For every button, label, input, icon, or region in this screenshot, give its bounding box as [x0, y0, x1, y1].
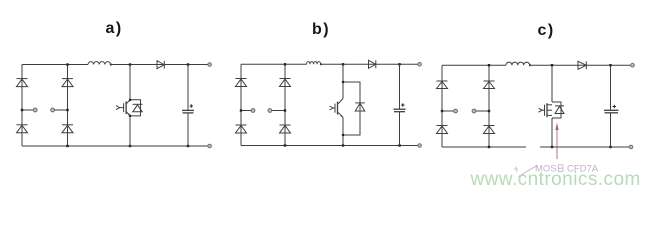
bridge diode A-D2 — [17, 125, 28, 133]
bridge diode A-D1 — [17, 79, 28, 87]
node AC1 a — [21, 108, 37, 112]
bridge diode B-D3 — [280, 79, 291, 87]
svg-text:a): a) — [106, 20, 123, 37]
wire bottom rail C (with gap) — [442, 146, 629, 148]
wire right bridge leg B — [284, 64, 286, 145]
svg-text:c): c) — [538, 22, 555, 39]
output terminal C- — [629, 145, 633, 149]
wire top rail C — [442, 64, 631, 66]
annotation stroke diagonal — [519, 166, 538, 177]
IGBT Q (a) — [116, 100, 130, 116]
junction dots bottom rail B — [284, 144, 401, 146]
node AC1 c — [441, 109, 458, 113]
bridge diode C-D2 — [437, 126, 448, 134]
wire top rail A — [22, 64, 208, 66]
output terminal A+ — [208, 63, 212, 67]
node AC1 b — [240, 109, 255, 113]
bridge diode C-D4 — [484, 126, 495, 134]
wire top rail B — [241, 63, 418, 65]
antiparallel diode A — [133, 104, 143, 112]
svg-text:b): b) — [312, 21, 330, 38]
annotation arrow (red) to MOSFET — [555, 123, 558, 159]
junction dots top rail B — [284, 63, 401, 65]
IGBT Q (b) — [330, 99, 344, 118]
antiparallel diode loop B — [343, 82, 360, 135]
bridge diode C-D1 — [437, 81, 448, 89]
wire bottom rail B — [241, 145, 418, 147]
capacitor C (b) — [394, 64, 406, 145]
wire left bridge leg C — [441, 65, 443, 147]
antiparallel diode loop A — [130, 100, 141, 116]
capacitor C (c) — [604, 65, 619, 147]
junction dots bottom rail C — [488, 146, 612, 148]
inductor L (c) — [506, 62, 531, 66]
antiparallel diode B — [355, 103, 365, 111]
output terminal C+ — [631, 63, 635, 67]
junction dots top rail A — [66, 63, 189, 65]
output terminal A- — [208, 144, 212, 148]
node AC2 a — [51, 108, 69, 112]
output terminal B- — [418, 144, 422, 148]
MOSFET Q (c) — [539, 103, 553, 117]
inductor L (b) — [307, 62, 323, 66]
boost diode D (b) — [369, 60, 376, 68]
wire left bridge leg B — [240, 64, 242, 145]
node AC2 b — [268, 109, 286, 113]
wire left bridge leg A — [21, 65, 23, 147]
bridge diode A-D3 — [62, 79, 73, 87]
boost diode D (a) — [157, 61, 164, 69]
bridge diode B-D4 — [280, 125, 291, 133]
boost diode D (c) — [578, 61, 586, 69]
node AC2 c — [472, 109, 490, 113]
junction dots switch loop A — [129, 99, 131, 117]
wire bottom rail A — [22, 145, 208, 147]
wire right bridge leg C — [488, 65, 490, 147]
body diode loop C — [552, 102, 561, 118]
junction dots switch loop B — [342, 81, 344, 136]
bridge diode A-D4 — [62, 125, 73, 133]
annotation text MOS CFD7A — [514, 164, 599, 175]
wire switch branch C — [551, 65, 553, 147]
capacitor C (a) — [182, 65, 194, 147]
wire switch branch A — [129, 65, 131, 147]
inductor L (a) — [88, 62, 112, 66]
bridge diode C-D3 — [484, 81, 495, 89]
junction dots bottom rail A — [66, 145, 189, 147]
wire switch branch B — [342, 64, 344, 145]
body diode C — [555, 106, 564, 114]
junction dots top rail C — [488, 64, 612, 66]
wire right bridge leg A — [67, 65, 69, 147]
bridge diode B-D2 — [236, 125, 247, 133]
output terminal B+ — [418, 63, 422, 67]
svg-text:www.cntronics.com: www.cntronics.com — [470, 169, 641, 190]
bridge diode B-D1 — [236, 79, 247, 87]
